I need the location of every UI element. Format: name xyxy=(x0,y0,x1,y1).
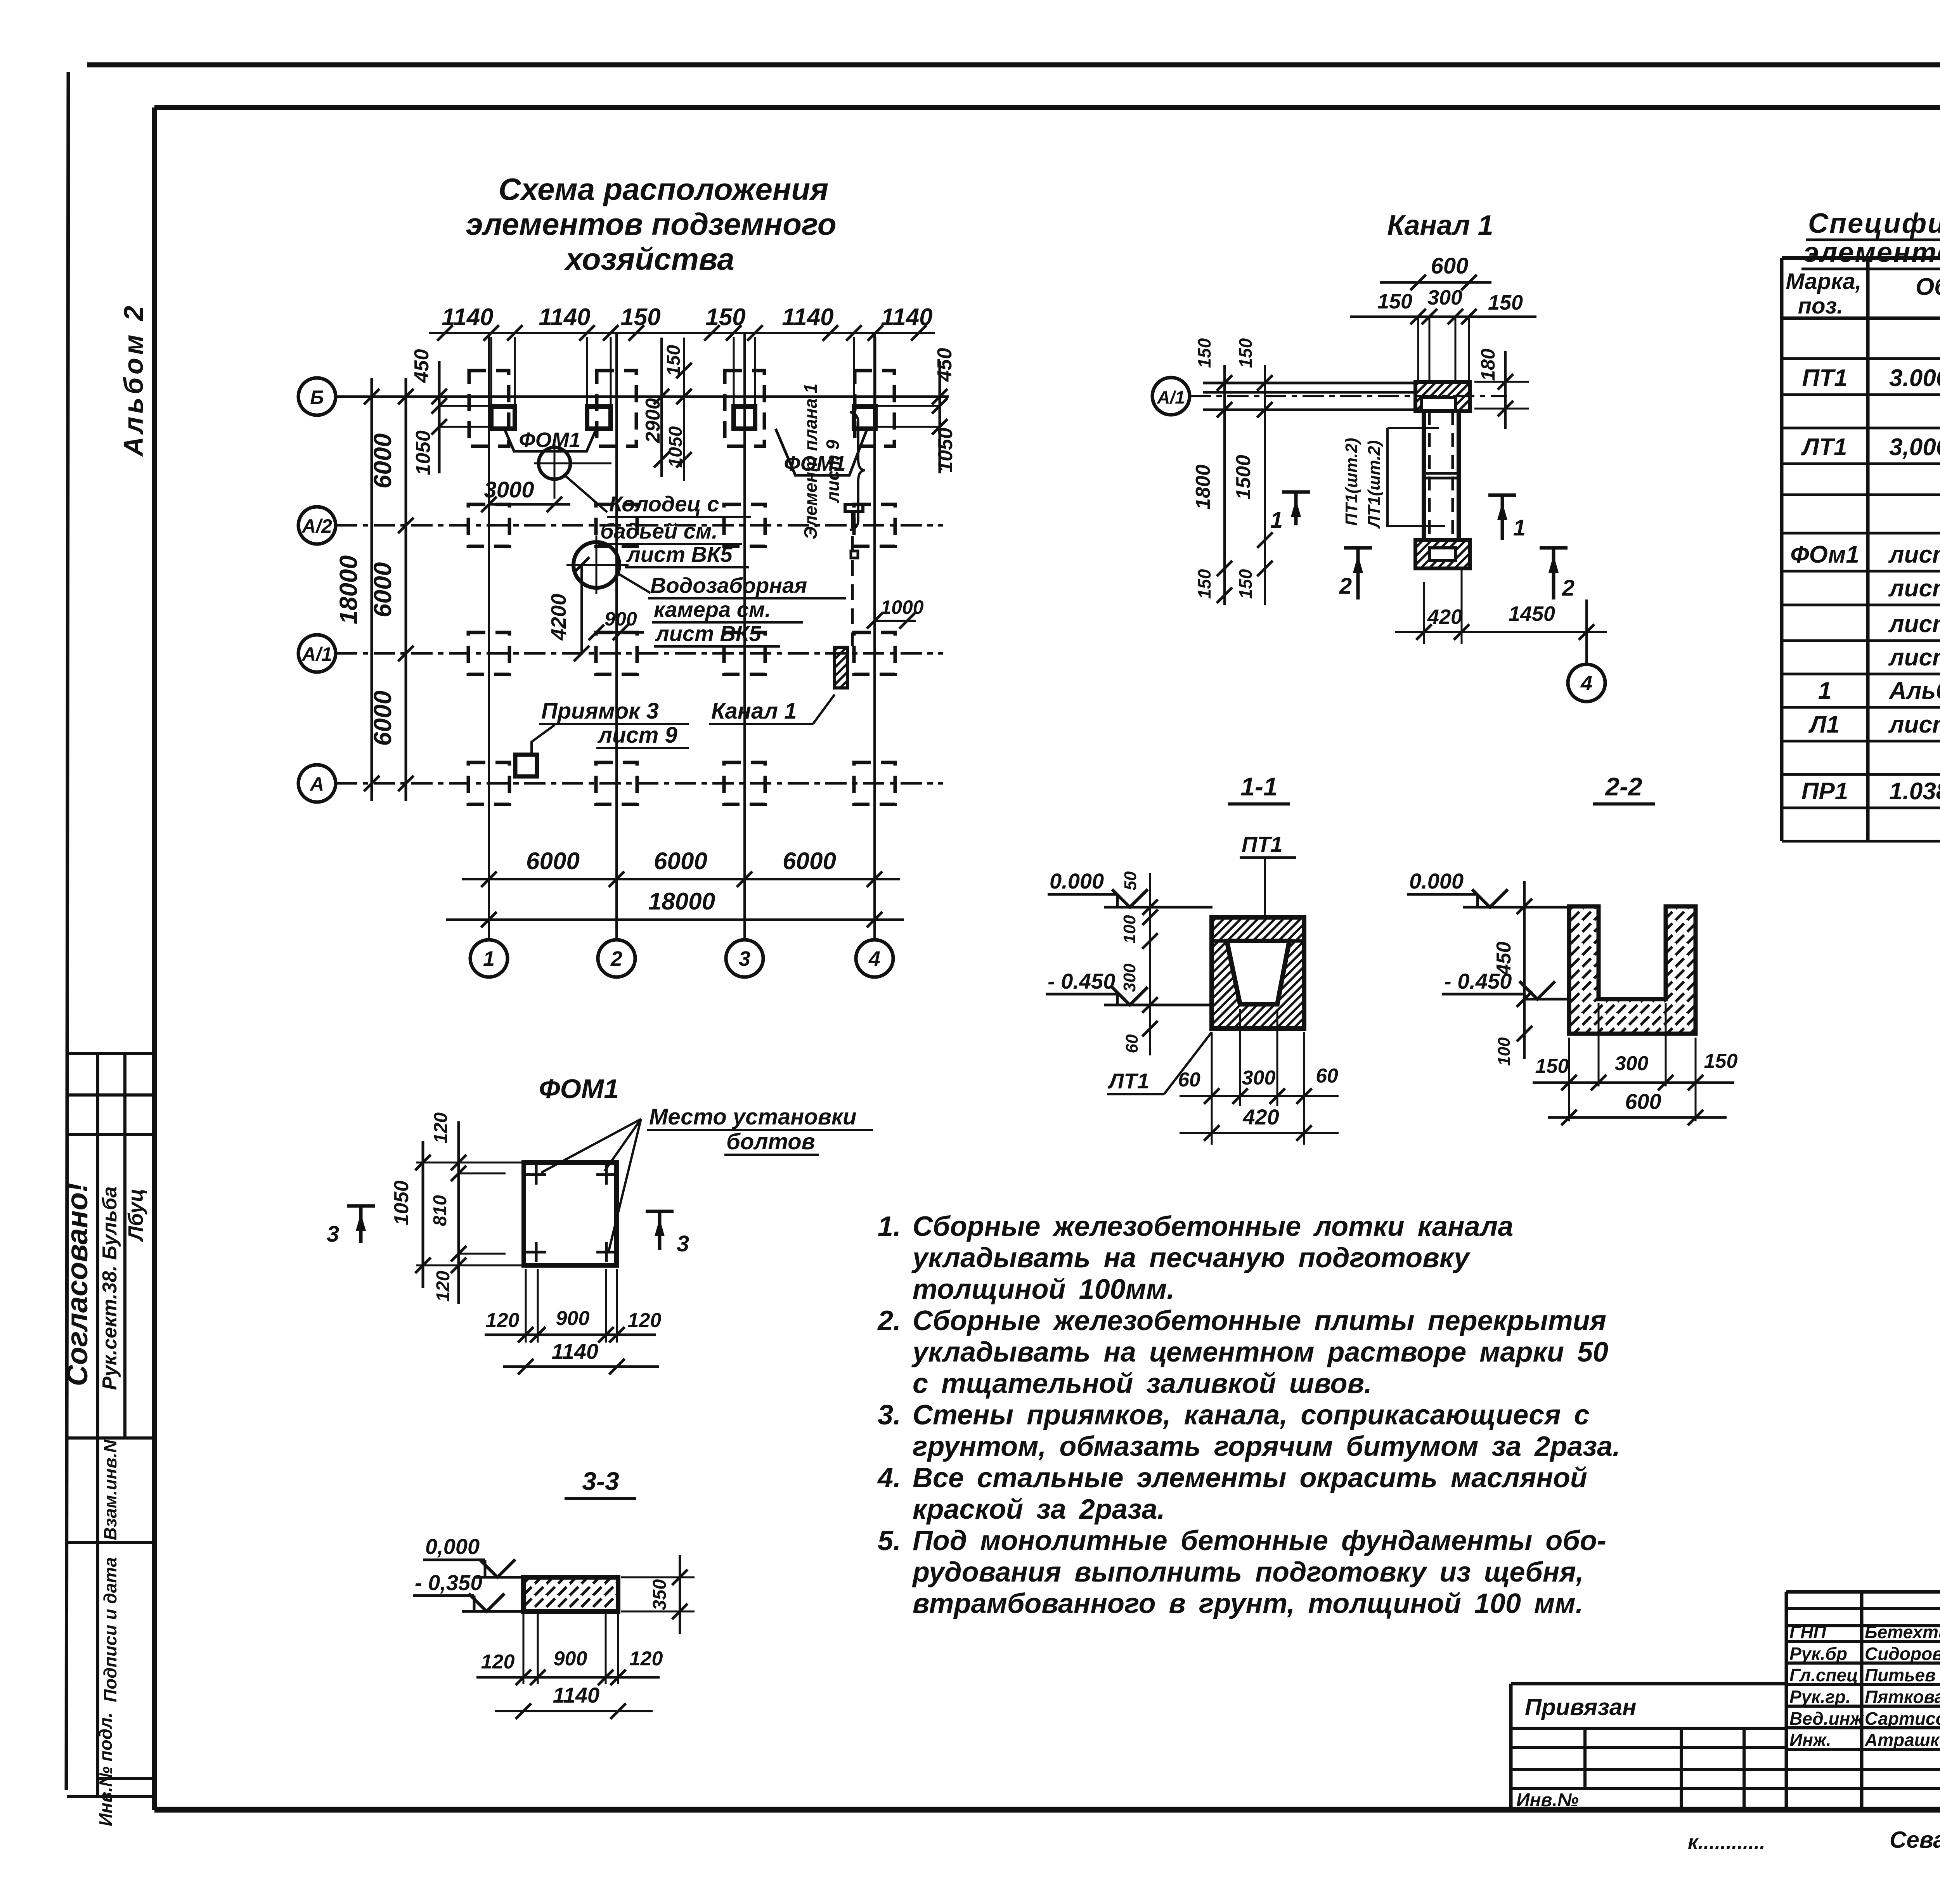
svg-text:18000: 18000 xyxy=(334,555,362,624)
svg-text:150: 150 xyxy=(620,304,660,331)
plan: priamok 3 solid square xyxy=(515,755,537,776)
svg-text:Стены приямков, канала, сопр: Стены приямков, канала, соприкасающиеся … xyxy=(913,1400,1590,1431)
svg-text:18000: 18000 xyxy=(648,888,715,915)
svg-text:Сидорова: Сидорова xyxy=(1865,1644,1940,1664)
svg-text:Сборные железобетонные плиты: Сборные железобетонные плиты перекрытия xyxy=(913,1305,1606,1336)
2-2: bottom dims xyxy=(1568,1038,1570,1121)
svg-text:4: 4 xyxy=(1580,672,1592,695)
svg-text:300: 300 xyxy=(1427,286,1462,309)
plan: column axis vertical lines xyxy=(488,333,490,940)
svg-text:ЛТ1(шт.2): ЛТ1(шт.2) xyxy=(1365,440,1384,529)
inner frame border xyxy=(154,105,1940,110)
svg-text:3: 3 xyxy=(739,947,750,970)
svg-text:Схема расположения: Схема расположения xyxy=(499,172,828,206)
svg-text:Под монолитные бетонные фун: Под монолитные бетонные фундаменты обо- xyxy=(913,1525,1606,1556)
svg-text:2: 2 xyxy=(1562,575,1575,601)
svg-text:хозяйства: хозяйства xyxy=(564,242,734,276)
svg-text:лист 8: лист 8 xyxy=(1888,541,1940,568)
svg-text:ФОм1: ФОм1 xyxy=(1790,541,1859,568)
svg-text:420: 420 xyxy=(1427,605,1462,629)
svg-text:Колодец с: Колодец с xyxy=(609,492,719,516)
svg-text:60: 60 xyxy=(1178,1069,1200,1091)
svg-text:120: 120 xyxy=(628,1309,662,1332)
svg-text:ПТ1(шт.2): ПТ1(шт.2) xyxy=(1342,438,1361,526)
svg-text:1450: 1450 xyxy=(1509,602,1555,625)
svg-text:ГНП: ГНП xyxy=(1789,1622,1826,1642)
svg-text:ПР1: ПР1 xyxy=(1801,778,1848,805)
svg-text:Атрашкевич: Атрашкевич xyxy=(1864,1730,1940,1750)
svg-text:грунтом, обмазать горячим б: грунтом, обмазать горячим битумом за 2ра… xyxy=(913,1431,1620,1462)
svg-text:ФОМ1: ФОМ1 xyxy=(539,1074,619,1104)
svg-text:Приямок 3: Приямок 3 xyxy=(541,698,659,724)
svg-text:450: 450 xyxy=(1493,942,1515,976)
2-2: right vertical chain 450/100 xyxy=(1523,881,1526,1059)
svg-text:А/1: А/1 xyxy=(301,643,332,665)
svg-text:0.000: 0.000 xyxy=(1409,869,1464,893)
svg-text:900: 900 xyxy=(554,1648,587,1670)
kanal1: bottom dims 420/1450 xyxy=(1395,631,1607,633)
svg-text:600: 600 xyxy=(1431,253,1469,279)
svg-text:ФОМ1: ФОМ1 xyxy=(519,428,580,452)
kanal1: top dims xyxy=(1380,281,1491,284)
svg-text:0,000: 0,000 xyxy=(425,1534,480,1559)
svg-text:450: 450 xyxy=(411,349,433,383)
svg-text:1050: 1050 xyxy=(412,430,435,475)
svg-text:900: 900 xyxy=(605,608,637,630)
svg-text:втрамбованного в грунт, толщ: втрамбованного в грунт, толщиной 100 мм. xyxy=(913,1588,1583,1619)
svg-text:Инв.№: Инв.№ xyxy=(1516,1790,1579,1810)
FOM1 left dim chains xyxy=(422,1141,424,1288)
svg-text:1: 1 xyxy=(1513,515,1526,541)
svg-text:Привязан: Привязан xyxy=(1525,1694,1636,1720)
spec table grid xyxy=(1780,258,1784,841)
plan: 900 dim xyxy=(596,631,644,634)
svg-text:120: 120 xyxy=(481,1651,515,1673)
svg-text:180: 180 xyxy=(1477,348,1499,381)
svg-text:Рук.сект.38. Бульба: Рук.сект.38. Бульба xyxy=(99,1187,121,1390)
svg-text:150: 150 xyxy=(1704,1050,1738,1072)
svg-text:Б: Б xyxy=(310,386,324,408)
svg-text:Все стальные элементы окрас: Все стальные элементы окрасить масляной xyxy=(913,1462,1587,1493)
svg-text:Инв.№ подл.: Инв.№ подл. xyxy=(95,1713,116,1826)
svg-text:150: 150 xyxy=(1235,338,1256,368)
3-3 right chain 350 xyxy=(679,1555,681,1634)
svg-text:Согласовано!: Согласовано! xyxy=(61,1183,94,1386)
kanal1: section marks 2-2 xyxy=(1344,546,1372,550)
svg-text:бадьей см.: бадьей см. xyxy=(600,519,718,543)
svg-text:810: 810 xyxy=(430,1195,450,1226)
frame: outer top line xyxy=(87,62,1940,68)
svg-text:укладывать на цементном рас: укладывать на цементном растворе марки 5… xyxy=(911,1337,1608,1368)
svg-text:Бетехтин: Бетехтин xyxy=(1865,1622,1940,1642)
svg-text:100: 100 xyxy=(1120,915,1139,944)
plan: 1000 dim xyxy=(875,620,916,622)
svg-text:300: 300 xyxy=(1615,1052,1649,1075)
plan: axis circles left xyxy=(298,378,336,415)
svg-text:3000: 3000 xyxy=(484,477,534,502)
svg-text:Взам.инв.N: Взам.инв.N xyxy=(100,1440,120,1540)
svg-text:1140: 1140 xyxy=(442,304,493,331)
svg-text:3.: 3. xyxy=(878,1400,901,1431)
svg-text:лист 9: лист 9 xyxy=(597,722,677,748)
plan: 4200 vertical dim xyxy=(580,565,583,653)
svg-text:1.: 1. xyxy=(878,1211,901,1242)
plan: solid FOM1 foundation squares on axis B xyxy=(491,407,515,429)
svg-text:Сартисон: Сартисон xyxy=(1865,1708,1940,1729)
svg-text:лист 9: лист 9 xyxy=(1888,611,1940,638)
1-1: bottom dims xyxy=(1211,1032,1213,1145)
svg-text:150: 150 xyxy=(705,304,745,331)
svg-text:Спецификация к схеме располо: Спецификация к схеме расположения xyxy=(1808,208,1940,239)
svg-text:1-1: 1-1 xyxy=(1240,772,1277,801)
svg-text:150: 150 xyxy=(1235,569,1256,599)
svg-text:2: 2 xyxy=(1339,573,1352,599)
svg-text:450: 450 xyxy=(934,348,956,382)
svg-text:2900: 2900 xyxy=(642,398,664,444)
svg-text:Рук.гр.: Рук.гр. xyxy=(1789,1687,1851,1707)
svg-text:ЛТ1: ЛТ1 xyxy=(1801,434,1847,461)
svg-text:поз.: поз. xyxy=(1798,293,1843,319)
kanal1: channel walls xyxy=(1422,411,1426,540)
svg-text:100: 100 xyxy=(1495,1037,1514,1066)
svg-text:элементов подземного: элементов подземного xyxy=(466,207,836,241)
svg-text:лист ВК5: лист ВК5 xyxy=(626,542,733,567)
svg-text:4.: 4. xyxy=(877,1462,901,1493)
svg-text:4200: 4200 xyxy=(547,594,570,641)
svg-text:120: 120 xyxy=(486,1309,520,1332)
kanal1: top slab PT1 (plan) xyxy=(1415,382,1470,411)
svg-text:3-3: 3-3 xyxy=(582,1467,619,1495)
plan: vodozaborna camera circle xyxy=(573,542,619,588)
kanal1: wall lines along axis xyxy=(1203,382,1415,385)
svg-text:1050: 1050 xyxy=(390,1180,413,1225)
kanal1: left chains 150-150 xyxy=(1223,365,1226,605)
svg-text:Водозаборная: Водозаборная xyxy=(650,573,807,598)
svg-text:Питьев: Питьев xyxy=(1865,1665,1936,1685)
svg-text:1500: 1500 xyxy=(1232,455,1255,500)
svg-text:1140: 1140 xyxy=(539,304,590,331)
FOM1 section marks 3 xyxy=(347,1204,375,1208)
svg-text:- 0.450: - 0.450 xyxy=(1048,969,1115,993)
plan: top dimension chain xyxy=(429,332,935,334)
svg-text:120: 120 xyxy=(433,1271,454,1302)
svg-text:150: 150 xyxy=(663,345,684,376)
svg-text:Пяткова: Пяткова xyxy=(1865,1687,1940,1707)
svg-text:150: 150 xyxy=(1377,290,1412,313)
kanal1: bottom slab (plan) xyxy=(1415,540,1470,568)
svg-text:2.: 2. xyxy=(877,1305,901,1336)
svg-text:1050: 1050 xyxy=(665,426,686,468)
svg-text:Подписи и дата: Подписи и дата xyxy=(100,1557,120,1702)
3-3 hatched foundation xyxy=(523,1577,618,1611)
svg-text:150: 150 xyxy=(1535,1055,1569,1078)
svg-text:с тщательной заливкой швов.: с тщательной заливкой швов. xyxy=(913,1368,1372,1399)
plan: dashed column squares xyxy=(469,371,509,446)
svg-text:6000: 6000 xyxy=(369,433,397,489)
plan: left dim chains 18000/6000 xyxy=(371,378,373,801)
svg-text:1: 1 xyxy=(1818,677,1831,704)
svg-text:ПТ1: ПТ1 xyxy=(1802,365,1848,392)
svg-text:Обозначение: Обозначение xyxy=(1916,274,1940,300)
svg-text:6000: 6000 xyxy=(369,691,397,746)
svg-text:350: 350 xyxy=(650,1579,670,1610)
svg-text:150: 150 xyxy=(1194,569,1214,599)
svg-text:1: 1 xyxy=(483,947,495,970)
plan: middle chains 150/2900/1050 xyxy=(660,338,663,477)
plan: horizontal axes xyxy=(336,395,949,398)
svg-text:Севастьянова: Севастьянова xyxy=(1890,1827,1940,1853)
plan: small element at top of kanal xyxy=(845,504,863,511)
svg-text:Марка,: Марка, xyxy=(1786,269,1861,294)
svg-text:1000: 1000 xyxy=(880,596,923,618)
svg-text:3: 3 xyxy=(677,1231,689,1256)
svg-text:элементов подземного хозяйст: элементов подземного хозяйства xyxy=(1803,237,1940,268)
svg-text:0.000: 0.000 xyxy=(1050,869,1104,893)
outer left border line xyxy=(66,72,68,1790)
kanal1: axis A/1 circle xyxy=(1152,378,1190,415)
FOM1 bottom dims xyxy=(525,1269,527,1343)
svg-text:болтов: болтов xyxy=(726,1129,815,1154)
svg-text:300: 300 xyxy=(1120,963,1139,992)
svg-text:6000: 6000 xyxy=(369,562,397,617)
svg-text:6000: 6000 xyxy=(654,848,707,875)
svg-text:1140: 1140 xyxy=(782,304,833,331)
plan: small vertical chains 450/1050 left and right xyxy=(438,361,441,473)
svg-text:3,006.1-2.87. 1-2: 3,006.1-2.87. 1-2 xyxy=(1889,434,1940,461)
svg-text:420: 420 xyxy=(1242,1105,1279,1129)
svg-text:рудования выполнить подготов: рудования выполнить подготовку из щебня, xyxy=(912,1557,1584,1588)
svg-text:1140: 1140 xyxy=(553,1683,599,1707)
svg-text:Сборные железобетонные лотки: Сборные железобетонные лотки канала xyxy=(913,1211,1513,1242)
title block: signature table xyxy=(1785,1592,1788,1810)
svg-text:к............: к............ xyxy=(1688,1831,1765,1854)
3-3 bottom dims xyxy=(523,1614,525,1684)
svg-text:6000: 6000 xyxy=(783,848,836,875)
svg-text:Альбом -КЖ4-МК1: Альбом -КЖ4-МК1 xyxy=(1888,677,1940,704)
svg-text:Рук.бр: Рук.бр xyxy=(1789,1644,1847,1664)
svg-text:6000: 6000 xyxy=(526,848,580,875)
svg-text:лист 9: лист 9 xyxy=(1888,711,1940,738)
svg-text:1050: 1050 xyxy=(934,428,957,473)
svg-text:1140: 1140 xyxy=(552,1339,598,1363)
plan: kolodets small circle xyxy=(539,447,570,479)
svg-text:1: 1 xyxy=(1270,508,1283,533)
svg-text:краской за 2раза.: краской за 2раза. xyxy=(913,1494,1165,1525)
kanal1: 180 dim xyxy=(1504,351,1507,429)
svg-text:ПТ1: ПТ1 xyxy=(1242,832,1283,856)
svg-text:Гл.спец: Гл.спец xyxy=(1789,1665,1858,1685)
svg-text:900: 900 xyxy=(556,1307,590,1330)
svg-text:5.: 5. xyxy=(878,1525,901,1556)
svg-text:А: А xyxy=(309,773,324,795)
2-2: U channel cross-section xyxy=(1569,906,1696,1034)
1-1: vertical dim chain xyxy=(1149,873,1151,1055)
svg-text:600: 600 xyxy=(1625,1089,1661,1114)
svg-text:1140: 1140 xyxy=(881,304,932,331)
svg-text:лист ВК5: лист ВК5 xyxy=(655,621,761,646)
left strip table xyxy=(96,1053,99,1797)
svg-text:50: 50 xyxy=(1121,871,1140,890)
kanal1: axis 4 circle xyxy=(1585,599,1588,664)
svg-text:2-2: 2-2 xyxy=(1604,772,1642,801)
svg-text:2: 2 xyxy=(610,947,622,970)
svg-text:лист 9: лист 9 xyxy=(1888,644,1940,671)
svg-text:150: 150 xyxy=(1488,291,1523,314)
svg-text:Канал 1: Канал 1 xyxy=(711,698,797,724)
plan: bottom dimension chains xyxy=(462,878,900,880)
svg-text:Лбуц: Лбуц xyxy=(124,1188,147,1242)
svg-text:Инж.: Инж. xyxy=(1789,1730,1831,1750)
svg-text:А/2: А/2 xyxy=(301,515,332,537)
svg-text:4: 4 xyxy=(868,947,880,970)
svg-text:камера см.: камера см. xyxy=(654,597,771,622)
svg-text:А/1: А/1 xyxy=(1157,387,1185,407)
svg-text:Канал 1: Канал 1 xyxy=(1387,210,1493,241)
svg-text:3: 3 xyxy=(327,1221,339,1247)
plan: kanal dashed line and hatched rect xyxy=(851,512,854,646)
svg-text:Л1: Л1 xyxy=(1808,711,1840,738)
svg-text:120: 120 xyxy=(431,1112,451,1143)
svg-text:1.038.1-1 Вып.1: 1.038.1-1 Вып.1 xyxy=(1889,778,1940,805)
svg-text:ЛТ1: ЛТ1 xyxy=(1107,1069,1149,1093)
kanal1: section marks 1-1 xyxy=(1282,490,1310,494)
svg-text:Вед.инж: Вед.инж xyxy=(1789,1708,1864,1729)
plan: axis circles bottom xyxy=(470,940,508,977)
svg-text:300: 300 xyxy=(1242,1067,1276,1089)
svg-text:60: 60 xyxy=(1122,1034,1141,1053)
svg-text:120: 120 xyxy=(629,1648,663,1670)
FOM1 square xyxy=(524,1162,617,1265)
svg-text:Место установки: Место установки xyxy=(649,1104,857,1130)
svg-text:лист 9: лист 9 xyxy=(1888,575,1940,602)
title block: left (privyazan) table xyxy=(1509,1684,1513,1810)
svg-text:толщиной 100мм.: толщиной 100мм. xyxy=(913,1274,1174,1305)
1-1: channel cross-section xyxy=(1212,917,1304,1029)
svg-text:- 0,350: - 0,350 xyxy=(415,1570,482,1595)
svg-text:Альбом 2: Альбом 2 xyxy=(118,303,149,457)
svg-text:60: 60 xyxy=(1316,1065,1338,1087)
svg-text:150: 150 xyxy=(1194,338,1214,368)
svg-text:1800: 1800 xyxy=(1192,464,1214,509)
svg-text:3.006.1-2.87.2-2: 3.006.1-2.87.2-2 xyxy=(1889,365,1940,392)
svg-text:укладывать на песчаную подг: укладывать на песчаную подготовку xyxy=(911,1242,1471,1273)
